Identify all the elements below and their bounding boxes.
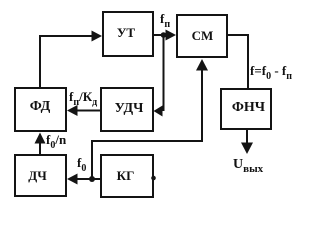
wire ФД top to УТ input — [40, 31, 102, 88]
block ДЧ — [15, 155, 66, 196]
wire СМ to ФНЧ — [228, 35, 248, 88]
svg-text:fп: fп — [160, 11, 170, 30]
wire junction down to УДЧ — [154, 35, 164, 117]
node dot on КГ right edge — [151, 176, 156, 181]
wire УДЧ to ФД — [67, 105, 100, 116]
svg-text:ФД: ФД — [30, 99, 51, 114]
block СМ — [177, 15, 227, 57]
wire junction up over КГ to СМ bottom — [92, 59, 208, 179]
block УДЧ — [101, 88, 153, 131]
svg-text:Uвых: Uвых — [233, 157, 264, 175]
wire ДЧ top to ФД bottom — [35, 133, 46, 155]
wire КГ to ДЧ — [67, 174, 100, 185]
node junction on КГ-ДЧ wire — [89, 176, 95, 182]
svg-text:fп/Кд: fп/Кд — [69, 89, 97, 108]
block УТ — [103, 12, 153, 56]
block ФНЧ — [221, 89, 271, 129]
svg-text:УТ: УТ — [117, 25, 136, 40]
block ФД — [15, 88, 66, 131]
svg-text:ДЧ: ДЧ — [28, 168, 47, 183]
svg-text:УДЧ: УДЧ — [115, 101, 144, 116]
svg-text:f=f0 - fп: f=f0 - fп — [250, 63, 292, 82]
block КГ — [101, 155, 153, 197]
svg-text:ФНЧ: ФНЧ — [232, 100, 266, 115]
svg-text:f0/n: f0/n — [46, 132, 67, 151]
wire УТ to СМ — [154, 30, 176, 41]
wire ФНЧ output down — [241, 129, 253, 154]
svg-text:КГ: КГ — [117, 168, 135, 183]
node junction f_п — [161, 32, 167, 38]
svg-text:СМ: СМ — [192, 28, 214, 43]
svg-text:f0: f0 — [77, 155, 86, 174]
